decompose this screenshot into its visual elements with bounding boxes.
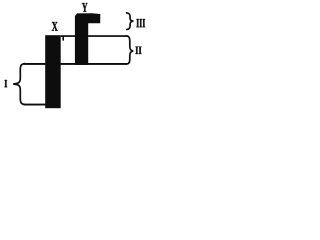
label I xyxy=(4,80,7,87)
bottom leader line (homologous region lower bound) xyxy=(24,63,127,65)
top leader line (homologous region upper bound) xyxy=(61,35,127,37)
brace II (right curly brace for region II) xyxy=(126,36,133,64)
background xyxy=(0,0,151,119)
spur at top-right of X bar xyxy=(62,36,64,41)
brace I (left curly brace for region I) xyxy=(13,64,24,105)
label III xyxy=(136,19,145,27)
Y chromosome (bar with top-right arm) xyxy=(75,13,100,65)
label Y xyxy=(82,3,88,12)
label II xyxy=(135,47,141,54)
brace III (right curly brace for region III) xyxy=(127,13,134,30)
bottom-left leader line (region I lower bound) xyxy=(24,104,46,106)
label X xyxy=(52,22,58,31)
X chromosome bar xyxy=(45,35,61,108)
